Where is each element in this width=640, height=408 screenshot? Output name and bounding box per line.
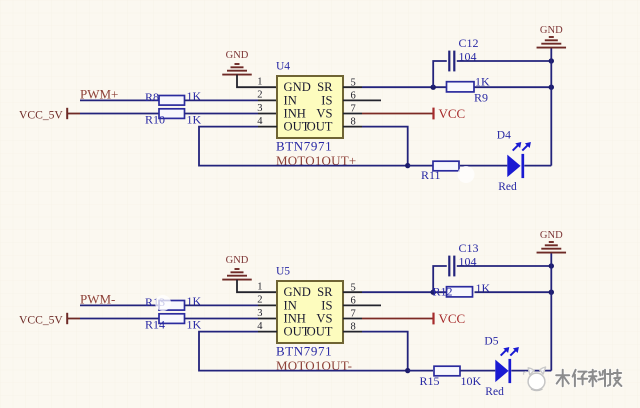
wire C13 branch [433,266,447,292]
watermark logo [524,367,546,391]
wire PWM- to R13 [80,304,159,306]
ground GND (right) [537,230,567,252]
svg-text:GND: GND [284,80,311,94]
svg-text:D4: D4 [497,130,511,142]
svg-text:R10: R10 [145,113,165,127]
wire GND rail [550,48,552,166]
pin 7 of U5 [343,318,362,320]
svg-text:OUT: OUT [307,325,333,339]
svg-text:C13: C13 [459,241,479,255]
wire MOTO1OUT- to R15 [408,370,433,372]
junction R9/GND rail [549,85,554,90]
svg-text:R15: R15 [420,374,440,388]
ground GND (U4 pin 1) [222,50,252,74]
pin 1 of U5 [258,291,277,293]
pin 6 of U4 (stub) [343,99,381,101]
wire U5 pin 8 down to MOTO1OUT- [362,332,408,371]
svg-text:VCC: VCC [439,106,466,121]
svg-text:IS: IS [321,298,332,312]
ground GND (U5 pin 1) [222,255,252,279]
junction C12 branch [431,85,436,90]
svg-text:PWM-: PWM- [80,291,115,306]
wire VCC_5V to R14 [80,318,159,320]
resistor R12 [433,281,491,298]
svg-text:SR: SR [317,80,333,94]
wire R13 to U5 pin 2 [185,304,259,306]
resistor R11 [421,161,459,182]
wire R14 to U5 pin 3 [185,318,259,320]
IC U4 BTN7971 [276,61,343,154]
wire MOTO1OUT- left loop [199,332,408,371]
svg-text:BTN7971: BTN7971 [276,343,332,358]
svg-text:U4: U4 [276,61,290,73]
wire U5 pin 7 to VCC [362,318,434,320]
svg-text:OUT: OUT [307,120,333,134]
wire GND to U4 pin 1 [237,75,258,88]
pin 2 of U5 [258,304,277,306]
LED D4 [497,130,531,193]
svg-text:1K: 1K [187,318,202,332]
wire C12 branch [433,61,447,87]
svg-text:VS: VS [316,311,332,325]
wire C12 to GND rail [457,60,552,62]
junction C12/GND rail [549,58,554,63]
svg-text:1K: 1K [187,113,202,127]
svg-text:4: 4 [257,116,263,127]
wire R8 to U4 pin 2 [185,99,259,101]
wire U5 pin 4 to MOTO1OUT- [258,331,277,333]
IC U5 BTN7971 [276,266,343,359]
svg-text:INH: INH [284,311,306,325]
svg-text:IS: IS [321,93,332,107]
svg-text:VCC_5V: VCC_5V [19,108,63,121]
capacitor C13 [449,241,478,276]
svg-text:IN: IN [284,298,297,312]
wire MOTO1OUT+ to R11 [408,165,433,167]
svg-text:4: 4 [257,321,263,332]
wire R12 to GND rail [475,291,552,293]
resistor R15 [420,366,482,388]
svg-text:R11: R11 [421,168,441,182]
svg-text:R12: R12 [433,284,453,298]
svg-text:INH: INH [284,106,306,120]
pin 5 of U4 [343,86,362,88]
wire C13 to GND rail [457,265,552,267]
junction C13 branch [431,290,436,295]
wire U4 pin 8 down to MOTO1OUT+ [362,127,408,166]
svg-text:VCC_5V: VCC_5V [19,313,63,326]
junction R12/GND rail [549,290,554,295]
svg-text:2: 2 [257,90,262,101]
wire U4 pin 4 to MOTO1OUT+ [258,126,277,128]
pin numbers U4 [257,77,356,128]
svg-text:VCC: VCC [439,311,466,326]
capacitor C12 [449,36,478,71]
watermark text muzai-keji [556,370,621,386]
wire R9 to GND rail [475,86,552,88]
pin 3 of U5 [258,318,277,320]
resistor R10 [145,109,202,127]
resistor R9 [447,74,491,104]
wire U5 pin 5 to R12 [362,291,447,293]
pin 1 of U4 [258,86,277,88]
svg-text:GND: GND [226,255,249,266]
svg-text:GND: GND [540,230,563,241]
svg-text:Red: Red [485,386,504,398]
wire R11 to D4 [460,165,507,167]
junction C13/GND rail [549,263,554,268]
svg-text:VS: VS [316,106,332,120]
svg-text:Red: Red [498,181,517,193]
svg-text:U5: U5 [276,266,290,278]
wire GND rail [550,253,552,371]
svg-text:R14: R14 [145,318,165,332]
svg-text:1: 1 [257,282,262,293]
wire PWM+ to R8 [80,99,159,101]
resistor R8 [145,89,202,105]
power VCC [434,311,466,326]
svg-text:GND: GND [540,25,563,36]
svg-text:D5: D5 [484,335,498,347]
wire D5 to GND rail [511,370,551,372]
wire GND to U5 pin 1 [237,280,258,293]
power VCC [434,106,466,121]
resistor R14 [145,314,202,332]
svg-text:GND: GND [226,50,249,61]
svg-text:PWM+: PWM+ [80,86,118,101]
LED D5 [484,335,519,398]
pin 8 of U5 [343,331,362,333]
svg-text:R8: R8 [145,90,159,104]
power VCC_5V [19,108,80,122]
resistor R13 [145,294,202,310]
junction pin8/MOTO1OUT- [405,368,410,373]
svg-text:10K: 10K [461,374,482,388]
pin 2 of U4 [258,99,277,101]
pin 6 of U5 (stub) [343,304,381,306]
pin numbers U5 [257,282,356,333]
svg-text:2: 2 [257,295,262,306]
svg-text:1K: 1K [475,74,490,88]
wire R10 to U4 pin 3 [185,113,259,115]
wire VCC_5V to R10 [80,113,159,115]
junction pin8/MOTO1OUT+ [405,163,410,168]
svg-text:IN: IN [284,93,297,107]
pin 8 of U4 [343,126,362,128]
svg-text:3: 3 [257,103,262,114]
svg-text:1: 1 [257,77,262,88]
pin 5 of U5 [343,291,362,293]
wire D4 to GND rail [524,165,551,167]
pin 7 of U4 [343,113,362,115]
watermark smudges [155,166,475,311]
wire R15 to D5 [460,370,495,372]
svg-text:GND: GND [284,285,311,299]
ground GND (right) [537,25,567,47]
svg-text:BTN7971: BTN7971 [276,138,332,153]
power VCC_5V [19,313,80,327]
svg-text:C12: C12 [459,36,479,50]
wire U4 pin 7 to VCC [362,113,434,115]
svg-text:R9: R9 [474,90,488,104]
svg-text:3: 3 [257,308,262,319]
wire U4 pin 5 to R9 [362,86,447,88]
svg-text:SR: SR [317,285,333,299]
wire MOTO1OUT+ left loop [199,127,408,166]
pin 3 of U4 [258,113,277,115]
